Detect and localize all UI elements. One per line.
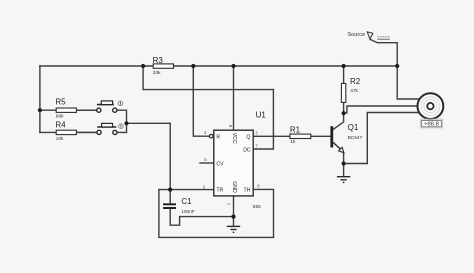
wire source diagonal to rail xyxy=(371,40,398,67)
node rail/DC-left xyxy=(141,64,145,68)
svg-text:R1: R1 xyxy=(290,126,301,135)
op-amp/timer U1 555 box xyxy=(203,111,267,211)
resistor R2 body xyxy=(341,77,360,102)
wire R1 to Q1 base xyxy=(311,135,331,137)
node TR/C1 junction xyxy=(168,188,172,192)
pushbutton SW2 xyxy=(97,123,123,134)
svg-text:R2: R2 xyxy=(350,77,361,86)
capacitor C1 xyxy=(163,197,195,215)
svg-text:+88.8: +88.8 xyxy=(424,122,439,128)
svg-text:Source: Source xyxy=(347,32,365,38)
wire C1 top lead xyxy=(169,190,171,204)
wire speaker bottom terminal to emitter node xyxy=(344,113,419,164)
wire top rail right segment xyxy=(174,65,398,67)
pushbutton SW1 xyxy=(97,101,123,112)
wire CV pin 5 stub xyxy=(200,162,214,164)
node rail/pin4 xyxy=(191,64,195,68)
svg-text:66k: 66k xyxy=(56,114,64,120)
speaker/sounder LS1 xyxy=(418,93,444,119)
wire button1 right to junction xyxy=(117,110,127,123)
node rail/source/speaker xyxy=(395,64,399,68)
transistor Q1 BC547 xyxy=(330,123,362,153)
wire Q1 emitter vertical xyxy=(343,153,345,177)
wire DC net: rail-left down and across xyxy=(143,66,273,90)
wire R2 bottom lead xyxy=(343,102,345,113)
wire VCC pin 8 stub xyxy=(233,66,235,130)
svg-text:33k: 33k xyxy=(153,70,161,76)
generator value marks xyxy=(377,37,389,39)
svg-text:CV: CV xyxy=(216,161,224,167)
svg-text:R3: R3 xyxy=(153,56,164,65)
node C1/pin1 ground junction xyxy=(231,215,235,219)
resistor R4 body xyxy=(55,121,76,142)
wire rail to speaker top terminal xyxy=(397,66,419,99)
wire bottom rail TR-TH xyxy=(159,190,274,238)
wire C1 bottom lead jog xyxy=(170,209,233,226)
wire TR horizontal to pin 2 xyxy=(159,189,214,191)
svg-text:GND: GND xyxy=(231,181,237,193)
wire R5 row left xyxy=(40,109,97,111)
resistor R5 body xyxy=(55,98,76,120)
svg-text:VCC: VCC xyxy=(231,133,237,144)
ground under 555 pin 1 xyxy=(227,226,240,232)
svg-text:U1: U1 xyxy=(256,111,267,120)
svg-text:TR: TR xyxy=(216,188,223,194)
svg-text:R5: R5 xyxy=(55,98,66,107)
svg-text:Q1: Q1 xyxy=(348,123,359,132)
svg-text:100nF: 100nF xyxy=(181,209,195,215)
wire Q pin 3 to R1 xyxy=(253,135,290,137)
wire DC vertical down to pin 7 xyxy=(253,90,273,149)
wire R4 row left xyxy=(40,131,97,133)
svg-text:TH: TH xyxy=(244,188,251,194)
junction node dots xyxy=(38,64,400,219)
svg-text:Q: Q xyxy=(246,134,250,140)
svg-text:10k: 10k xyxy=(56,136,64,142)
reset bubble pin 4 xyxy=(209,134,213,138)
source terminal (DC generator) xyxy=(347,32,389,39)
wire TR column down xyxy=(169,123,171,189)
wire TH pin 6 down xyxy=(253,189,273,237)
svg-text:555: 555 xyxy=(253,204,261,210)
wire left vertical from rail to R4 xyxy=(39,66,41,132)
wire Q1 collector xyxy=(333,113,344,129)
svg-text:R4: R4 xyxy=(55,121,66,130)
wire junction to TR column xyxy=(127,122,171,124)
wire R5 body to button1 xyxy=(76,109,96,111)
node rail/VCC xyxy=(231,64,235,68)
svg-text:BC547: BC547 xyxy=(348,135,363,141)
node rail/R2 xyxy=(342,64,346,68)
wire top rail left segment xyxy=(40,65,153,67)
svg-text:47k: 47k xyxy=(350,88,358,94)
svg-text:C1: C1 xyxy=(181,197,192,206)
svg-text:R: R xyxy=(216,135,220,141)
resistor R1 body xyxy=(290,126,311,146)
wire R4 body to button2 xyxy=(76,131,96,133)
node buttons junction xyxy=(124,121,128,125)
voltage probe +88.8 readout xyxy=(420,119,442,128)
wire button2 right to junction xyxy=(117,123,127,132)
node emitter/ground/speaker xyxy=(342,161,346,165)
svg-text:1k: 1k xyxy=(290,139,296,145)
wire reset pin 4 to rail xyxy=(193,66,209,136)
wire collector node to speaker middle terminal xyxy=(344,106,419,113)
node R5 tap xyxy=(38,108,42,112)
wire 555 pin 1 ground stem xyxy=(233,196,235,226)
ground under Q1 emitter xyxy=(337,177,350,183)
svg-text:DC: DC xyxy=(243,148,251,154)
resistor R3 body xyxy=(153,56,174,76)
wire R2 top lead xyxy=(343,66,345,83)
node collector/R2/speaker xyxy=(342,111,346,115)
